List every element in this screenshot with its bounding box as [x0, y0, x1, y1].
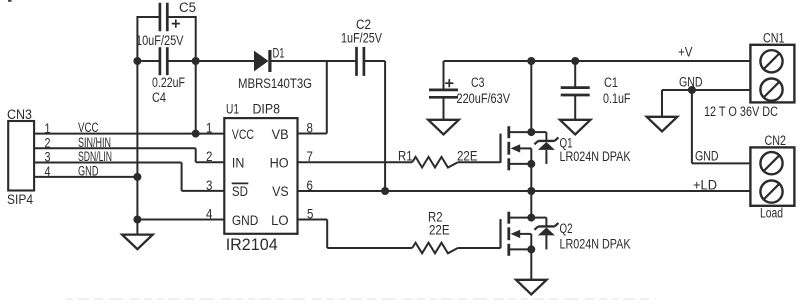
svg-text:GND: GND: [695, 149, 719, 164]
svg-text:8: 8: [307, 121, 313, 136]
junction Q1 drain node: [527, 128, 535, 136]
svg-text:12 T O 36V DC: 12 T O 36V DC: [704, 104, 778, 119]
svg-text:SD: SD: [232, 184, 248, 199]
junction Q2 source node: [527, 245, 535, 253]
svg-text:3: 3: [45, 150, 51, 165]
wire SDN/LIN jog down: [181, 163, 183, 191]
wire VS/+LD row: [298, 190, 750, 192]
capacitor C5: [159, 3, 162, 32]
wire Q1 source to +LD row: [530, 164, 532, 191]
svg-text:0.1uF: 0.1uF: [603, 91, 631, 106]
svg-text:2: 2: [45, 135, 51, 150]
ground under C3: [428, 120, 459, 135]
svg-text:Q2: Q2: [560, 221, 573, 236]
svg-text:MBRS140T3G: MBRS140T3G: [238, 76, 312, 91]
junction C4 right / VCC rail: [192, 57, 200, 65]
svg-text:GND: GND: [78, 164, 99, 179]
svg-text:+LD: +LD: [693, 178, 717, 193]
top-left artifact: [8, 0, 12, 2]
capacitor C3 leads: [443, 61, 445, 90]
svg-text:IN: IN: [232, 155, 245, 170]
svg-text:CN1: CN1: [763, 31, 785, 46]
svg-text:1: 1: [206, 121, 212, 136]
svg-text:LR024N DPAK: LR024N DPAK: [560, 149, 631, 164]
svg-text:U1: U1: [226, 102, 239, 117]
wire Q2 source to ground: [530, 249, 532, 279]
svg-text:22E: 22E: [457, 148, 478, 163]
connector CN1 screw terminal 1: [760, 50, 782, 72]
wire left GND rail (C5/C4 to CN3 GND and U1 GND): [136, 16, 138, 235]
svg-text:C4: C4: [152, 90, 166, 105]
transistor Q1 source stub: [509, 163, 532, 165]
resistor R1: [412, 157, 458, 168]
ground under C1: [560, 120, 591, 135]
transistor Q2 body diode: [531, 217, 546, 219]
svg-text:C5: C5: [179, 0, 196, 15]
wire D1 cathode to C2: [271, 60, 357, 62]
svg-text:CN2: CN2: [765, 133, 787, 148]
connector CN2 screw terminal 2: [760, 181, 782, 203]
svg-text:1uF/25V: 1uF/25V: [341, 31, 382, 46]
wire Q1 drain to +V rail: [530, 61, 532, 132]
svg-text:10uF/25V: 10uF/25V: [136, 33, 184, 48]
svg-text:1: 1: [45, 121, 51, 136]
svg-text:DIP8: DIP8: [253, 102, 281, 117]
diode D1: [254, 51, 269, 72]
wire LO row to R2: [327, 247, 412, 249]
wire SIN/HIN row: [34, 147, 196, 149]
transistor Q1 gate bar: [499, 134, 501, 163]
svg-text:D1: D1: [273, 46, 285, 61]
capacitor C3: [429, 89, 458, 92]
resistor R2: [412, 243, 458, 254]
capacitor C4: [159, 47, 162, 75]
transistor Q1 body arrow: [511, 144, 521, 152]
wire U1 pin5 stub: [298, 219, 328, 221]
connector CN2 screw terminal 1: [760, 152, 782, 174]
wire U1 pin3 stub: [182, 190, 225, 192]
wire GND drop near CN1: [661, 90, 663, 117]
transistor Q2 source stub: [509, 248, 532, 250]
wire VB drop from D1 row: [326, 60, 328, 134]
connector CN2 body: [750, 147, 794, 205]
svg-text:SDN/LIN: SDN/LIN: [78, 149, 112, 164]
wire Q2 drain from +LD row: [530, 191, 532, 218]
wire C5 left lead: [137, 16, 160, 18]
ground near CN1: [647, 117, 678, 132]
wire C4 to D1 anode: [167, 60, 254, 62]
transistor Q1 channel segments: [507, 126, 510, 138]
svg-text:CN3: CN3: [7, 107, 32, 122]
connector CN1 body: [750, 45, 794, 103]
transistor Q2 gate bar: [499, 219, 501, 248]
junction +LD row / Q1-Q2: [527, 187, 535, 195]
ground left (CN3/U1 GND): [122, 235, 153, 250]
wire C4 left lead: [137, 60, 160, 62]
wire HO row to R1: [298, 161, 413, 163]
junction Q1 source node: [527, 160, 535, 168]
wire R1 to Q1 gate: [458, 161, 501, 163]
svg-text:VB: VB: [272, 127, 289, 142]
svg-text:Load: Load: [760, 206, 783, 221]
svg-text:SIP4: SIP4: [7, 192, 33, 207]
svg-text:VCC: VCC: [78, 120, 99, 135]
wire SDN/LIN row: [34, 162, 181, 164]
svg-text:6: 6: [307, 178, 313, 193]
junction Q2 drain node: [527, 214, 535, 222]
junction CN1 GND / CN2 branch: [688, 86, 696, 94]
capacitor C1 leads: [574, 61, 576, 88]
svg-text:LO: LO: [271, 213, 289, 228]
svg-text:GND: GND: [679, 75, 703, 90]
junction C2 / VS row: [381, 187, 389, 195]
svg-text:0.22uF: 0.22uF: [152, 75, 185, 90]
wire C2 to VS row: [384, 61, 386, 191]
transistor Q1 body diode: [531, 131, 546, 133]
svg-text:22E: 22E: [429, 223, 450, 238]
wire C2 right lead: [364, 60, 385, 62]
capacitor C2: [355, 47, 358, 76]
capacitor C1: [561, 86, 590, 89]
transistor Q2 channel segments: [507, 212, 510, 224]
svg-text:4: 4: [206, 207, 213, 222]
transistor Q2 drain stub: [509, 217, 532, 219]
wire +V rail: [444, 60, 751, 62]
svg-text:+V: +V: [678, 45, 693, 60]
svg-text:220uF/63V: 220uF/63V: [457, 91, 511, 106]
transistor Q1 drain stub: [509, 131, 532, 133]
svg-text:GND: GND: [232, 213, 259, 228]
svg-text:5: 5: [307, 207, 313, 222]
junction GND rail / U1 GND: [133, 216, 141, 224]
junction +V rail / Q1 drain: [527, 57, 535, 65]
op-amp U1 body (IR2104 DIP8): [224, 118, 297, 234]
wire CN3 GND row: [34, 176, 137, 178]
wire U1 pin2 stub: [196, 161, 225, 163]
wire R2 to Q2 gate: [458, 247, 501, 249]
wire CN1 GND to CN2 GND drop: [691, 90, 693, 163]
connector CN3 body: [8, 121, 34, 191]
junction +V rail / C1: [571, 57, 579, 65]
svg-text:LR024N DPAK: LR024N DPAK: [560, 236, 631, 251]
wire C5 right lead: [167, 16, 195, 18]
svg-text:7: 7: [307, 149, 313, 164]
junction VCC rail / VCC row: [192, 130, 200, 138]
svg-text:C1: C1: [604, 75, 618, 90]
svg-text:3: 3: [206, 178, 212, 193]
svg-text:4: 4: [45, 164, 51, 179]
wire U1 pin8 stub: [298, 133, 327, 135]
wire CN2 GND row: [692, 162, 750, 164]
wire CN1 GND row: [662, 89, 750, 91]
svg-text:HO: HO: [270, 155, 289, 170]
ground under Q2: [516, 280, 547, 295]
svg-text:IR2104: IR2104: [226, 236, 278, 254]
bottom cut-off text artifact: [66, 298, 656, 300]
wire LO jog down: [326, 220, 328, 249]
wire U1 pin4 GND stub: [137, 219, 224, 221]
svg-text:SIN/HIN: SIN/HIN: [78, 135, 111, 150]
svg-text:VS: VS: [272, 184, 289, 199]
transistor Q2 body arrow: [511, 230, 521, 238]
wire right VCC rail (C5/C4 down to VCC row): [195, 16, 197, 134]
junction C4 left / GND rail: [133, 57, 141, 65]
svg-text:2: 2: [206, 149, 212, 164]
svg-text:R1: R1: [398, 148, 413, 163]
wire SIN/HIN jog down: [195, 148, 197, 162]
wire VCC row CN3 to U1 pin1: [34, 133, 224, 135]
junction GND rail / CN3 GND: [133, 173, 141, 181]
svg-text:VCC: VCC: [232, 127, 254, 142]
connector CN1 screw terminal 2: [760, 79, 782, 101]
svg-text:C3: C3: [471, 75, 485, 90]
